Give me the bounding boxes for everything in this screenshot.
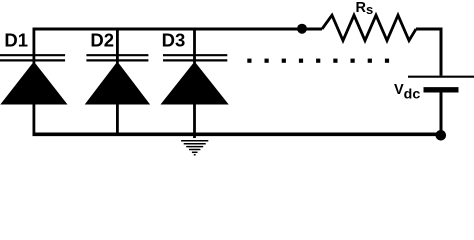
svg-text:D3: D3 [162, 29, 186, 50]
svg-text:D1: D1 [4, 29, 28, 50]
wire top rail left segment [33, 28, 323, 31]
wire D2 anode stem [116, 28, 119, 64]
D2 triangle [85, 62, 150, 105]
svg-text:Rs: Rs [356, 0, 374, 17]
wire D3 anode stem [193, 28, 196, 64]
resistor Rs [322, 15, 416, 40]
wire right side upper (to battery) [440, 28, 443, 76]
wire right side lower (battery to bottom rail) [440, 92, 443, 135]
D3 triangle [161, 62, 229, 105]
D3 cathode bar 1 [163, 54, 227, 56]
battery Vdc negative plate [424, 87, 459, 92]
D1 cathode bar 2 [0, 59, 65, 61]
wire D1 bottom stem [33, 104, 36, 134]
wire D2 bottom stem [116, 104, 119, 134]
wire bottom rail [33, 133, 442, 137]
D3 cathode bar 2 [163, 59, 227, 61]
D1 triangle [0, 62, 67, 105]
D2 cathode bar 1 [86, 54, 148, 56]
D2 cathode bar 2 [86, 59, 148, 61]
wire top rail right segment (resistor to corner) [416, 28, 443, 31]
continuation dots (more diodes) [247, 59, 389, 63]
junction node (bottom right) [436, 130, 447, 141]
ground [181, 141, 208, 155]
junction node (top rail) [297, 24, 307, 34]
varactor diode D2 [85, 28, 150, 135]
svg-text:D2: D2 [90, 29, 114, 50]
battery Vdc positive plate [408, 76, 474, 78]
varactor diode D1 [0, 28, 68, 135]
wire D3 bottom stem [193, 104, 196, 138]
varactor diode D3 [161, 28, 229, 139]
wire D1 anode stem [33, 28, 36, 64]
D1 cathode bar 1 [0, 54, 65, 56]
